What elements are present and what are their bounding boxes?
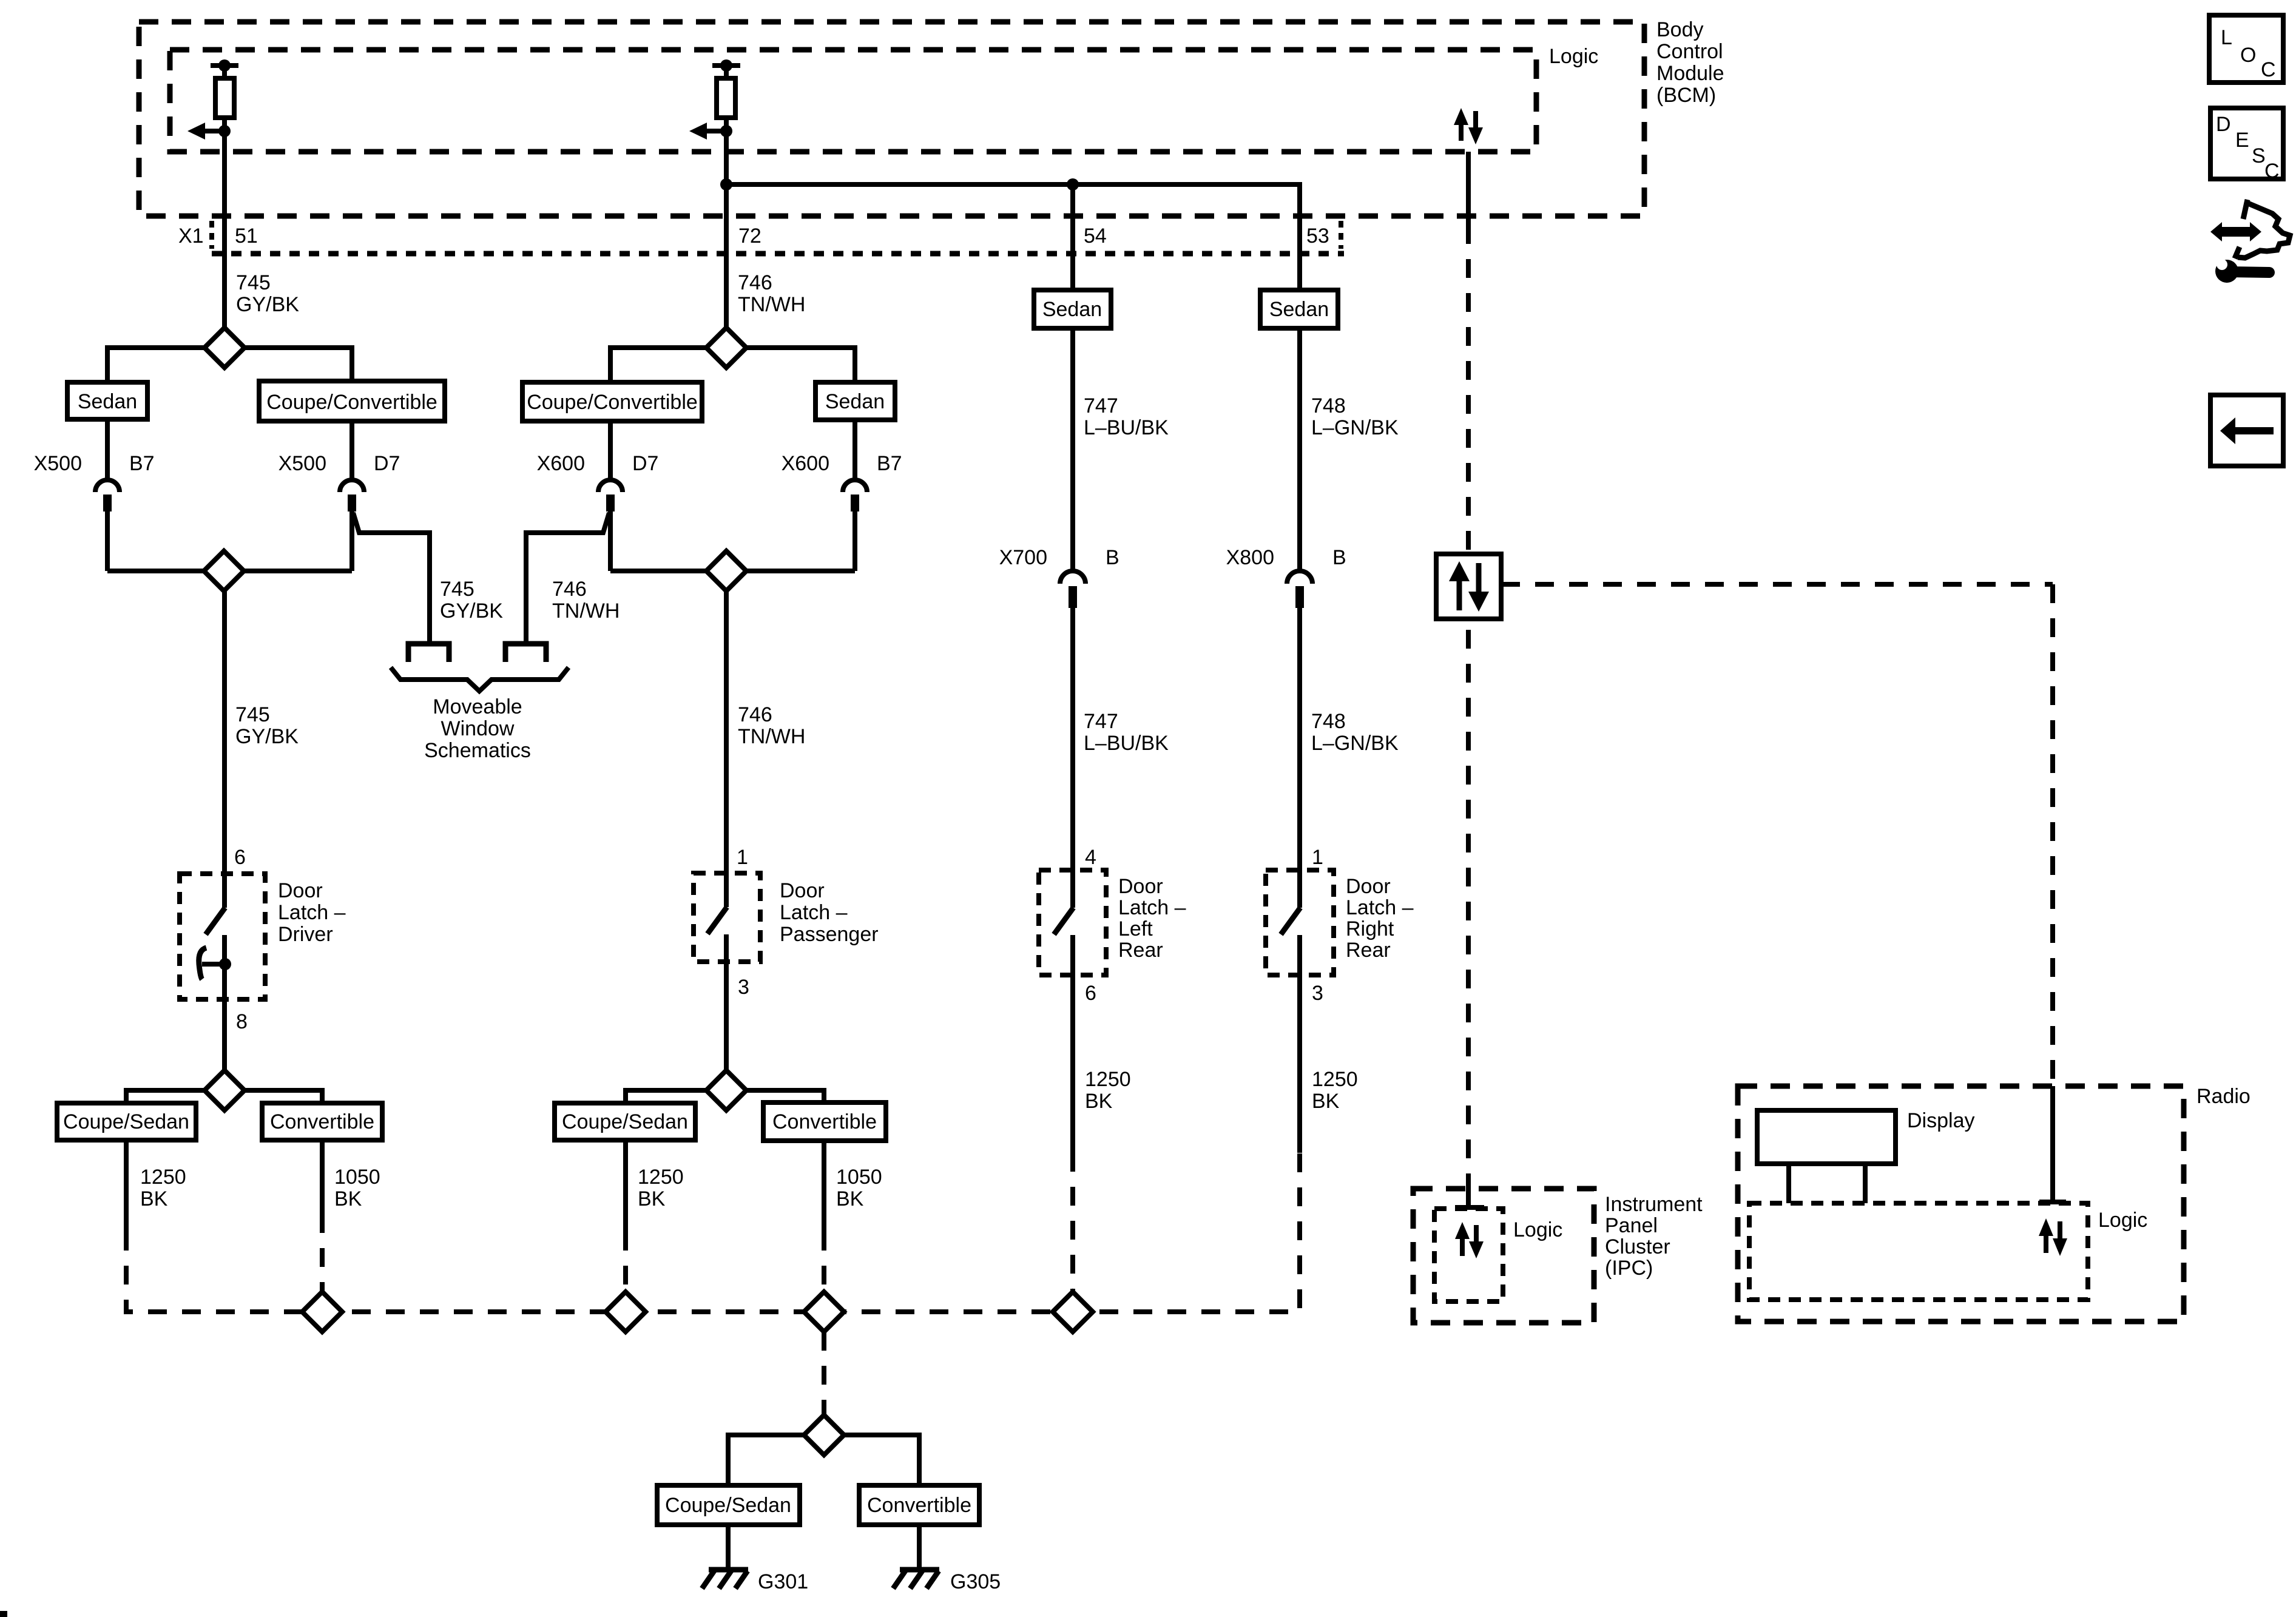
lower horizontal 746 right (746, 569, 855, 573)
svg-text:GY/BK: GY/BK (236, 293, 299, 316)
Radio outer dashed box (1738, 1086, 2184, 1322)
IPC inner Logic dashed box (1434, 1209, 1503, 1301)
svg-text:Door: Door (278, 879, 323, 902)
svg-text:TN/WH: TN/WH (552, 599, 620, 623)
svg-text:Door: Door (1346, 875, 1391, 898)
wire below Coupe/Sedan passenger (solid) (623, 1140, 628, 1232)
svg-text:Logic: Logic (2098, 1209, 2147, 1232)
wire label 1250 BK (748) (1312, 1068, 1358, 1113)
wire lower contact driver latch (222, 935, 227, 1070)
splice diamond S4 (746 lower) (706, 551, 746, 591)
BCM inner Logic dashed box (170, 50, 1536, 152)
svg-text:4: 4 (1085, 846, 1096, 869)
svg-text:BK: BK (638, 1187, 666, 1210)
arrows inside radio logic (2039, 1218, 2067, 1256)
svg-text:Coupe/Convertible: Coupe/Convertible (527, 391, 698, 414)
connector X600 B7 (arc + terminal) (843, 480, 867, 511)
wire serial data out of BCM (solid) (1466, 152, 1471, 225)
wire label 746 TN/WH (window branch) (552, 578, 620, 623)
wire 745 down to door latch driver (222, 591, 227, 908)
wire Sedan2 down to connector X600 B7 (853, 420, 857, 478)
brace for moveable window schematics (391, 667, 569, 691)
switch blade (door latch right rear) (1281, 908, 1300, 934)
svg-text:Latch –: Latch – (278, 901, 346, 924)
wire 748 below X800 to door latch right rear (1297, 608, 1302, 908)
wire label 746 TN/WH (mid) (738, 703, 805, 748)
hook link and junction (driver) (202, 958, 231, 970)
lower horizontal 746 left (610, 569, 706, 573)
svg-text:BK: BK (140, 1187, 168, 1210)
Radio inner Logic dashed box (1749, 1203, 2088, 1300)
node junction at pin 54 takeoff (1067, 178, 1079, 191)
svg-text:748: 748 (1311, 710, 1346, 733)
svg-text:X700: X700 (999, 546, 1047, 569)
wire CoupeConv2 down to connector X600 D7 (608, 421, 613, 478)
resistor R2 (BCM passenger output, pin 72 circuit) (712, 59, 740, 118)
svg-text:6: 6 (234, 846, 246, 869)
option box Coupe/Sedan (passenger ground) (555, 1103, 695, 1140)
svg-text:748: 748 (1311, 394, 1346, 417)
svg-text:BK: BK (1085, 1090, 1113, 1113)
wire label 746 TN/WH (upper) (738, 271, 805, 316)
svg-text:Coupe/Sedan: Coupe/Sedan (665, 1494, 791, 1517)
wire label 745 GY/BK (window branch) (440, 578, 503, 623)
svg-text:1050: 1050 (836, 1166, 882, 1189)
icon moveable window glass with arrow (2210, 200, 2290, 258)
wire lower contact passenger latch (724, 934, 729, 1070)
dashed drop Coupe/Sedan passenger (623, 1232, 628, 1293)
serial wire termination in IPC (1455, 1186, 1484, 1207)
svg-text:745: 745 (440, 578, 474, 601)
svg-text:1: 1 (1312, 846, 1323, 869)
svg-text:72: 72 (738, 224, 761, 248)
svg-text:Driver: Driver (278, 923, 333, 946)
dashed serial wire junction box down to IPC (1466, 630, 1471, 1186)
switch blade (door latch left rear) (1054, 908, 1073, 934)
connector X600 D7 (arc + terminal) (598, 480, 623, 511)
wire lower contact right rear latch (1297, 935, 1302, 1153)
label Instrument Panel Cluster (IPC) (1605, 1193, 1703, 1280)
svg-text:O: O (2240, 44, 2256, 67)
svg-text:Sedan: Sedan (1042, 298, 1102, 321)
svg-text:Latch –: Latch – (1346, 896, 1414, 919)
lower horizontal 745 right (244, 569, 352, 573)
svg-text:3: 3 (1312, 982, 1323, 1005)
dashed ground bus with corners (126, 1153, 1300, 1312)
svg-text:C: C (2261, 58, 2276, 81)
svg-text:Schematics: Schematics (424, 739, 531, 762)
arrow tap on R2 wire (689, 123, 732, 140)
wire to ground G301 (726, 1525, 731, 1568)
splice diamond bus B4 (1053, 1292, 1093, 1332)
wire branch S7 right to Convertible (844, 1435, 919, 1485)
svg-text:Latch –: Latch – (780, 901, 848, 924)
wire pin72 vertical (724, 118, 729, 328)
svg-text:1250: 1250 (140, 1166, 186, 1189)
wire below B7 to lower splice (105, 511, 110, 571)
Instrument Panel Cluster outer dashed box (1413, 1189, 1594, 1323)
wire label 1050 BK (driver convertible) (334, 1166, 380, 1210)
svg-text:GY/BK: GY/BK (440, 599, 503, 623)
dashed drop Convertible passenger (822, 1232, 826, 1293)
label Door Latch - Right Rear (1346, 875, 1414, 962)
ground G305 symbol (893, 1570, 939, 1588)
wire label 748 L-GN/BK (mid) (1311, 710, 1399, 755)
icon box LOC (2209, 15, 2283, 83)
svg-text:Sedan: Sedan (1269, 298, 1329, 321)
svg-text:X800: X800 (1226, 546, 1274, 569)
svg-text:Convertible: Convertible (270, 1110, 374, 1133)
svg-text:3: 3 (738, 976, 749, 999)
wire 746 down to door latch passenger (724, 591, 729, 907)
wire Sedan1 down to connector X500 B7 (105, 419, 110, 478)
wire CoupeConv1 down to connector X500 D7 (349, 421, 354, 478)
svg-text:Window: Window (441, 717, 515, 740)
svg-text:Rear: Rear (1118, 939, 1163, 962)
splice diamond bus B1 (302, 1292, 342, 1332)
svg-text:1250: 1250 (638, 1166, 684, 1189)
option box Sedan (driver, sedan) (67, 382, 147, 419)
svg-text:Convertible: Convertible (772, 1110, 877, 1133)
svg-text:745: 745 (235, 703, 270, 726)
wire label 1250 BK (747) (1085, 1068, 1131, 1113)
label Moveable Window Schematics (424, 695, 531, 762)
icon box DESC (2210, 108, 2283, 183)
svg-text:747: 747 (1084, 710, 1118, 733)
door latch left rear dashed box (1039, 870, 1106, 975)
display leg 1 (1786, 1164, 1791, 1203)
BCM label: Body Control Module (BCM) (1656, 18, 1724, 107)
wire label 1050 BK (passenger convertible) (836, 1166, 882, 1210)
wire branch S2 right to Sedan (746, 348, 855, 382)
Body Control Module (BCM) outer dashed box (139, 22, 1644, 216)
wire pin 54 vertical (1070, 184, 1075, 290)
dashed serial wire down to radio (2050, 584, 2055, 1086)
svg-text:Convertible: Convertible (867, 1494, 971, 1517)
serial wire termination in radio (2039, 1086, 2066, 1202)
svg-text:L–GN/BK: L–GN/BK (1311, 416, 1399, 439)
X1 separator dashes (209, 221, 214, 249)
svg-text:S: S (2252, 144, 2266, 167)
wire label 747 L-BU/BK (upper) (1084, 394, 1169, 439)
wire label 745 GY/BK (mid) (235, 703, 299, 748)
svg-text:TN/WH: TN/WH (738, 293, 805, 316)
option box Coupe/Sedan (driver ground) (57, 1103, 196, 1140)
option box Convertible (ground) (859, 1485, 979, 1525)
svg-text:Coupe/Sedan: Coupe/Sedan (63, 1110, 189, 1133)
svg-text:Cluster: Cluster (1605, 1235, 1670, 1258)
page corner speck (0, 1611, 7, 1617)
option box Coupe/Convertible (driver) (259, 381, 445, 421)
svg-text:Instrument: Instrument (1605, 1193, 1703, 1216)
option box Convertible (driver ground) (262, 1103, 382, 1140)
wire serial data dashed down to junction box (1466, 225, 1471, 554)
icon wrench (2215, 259, 2269, 283)
wire branch S5 left to Coupe/Sedan (126, 1090, 204, 1103)
splice diamond bus B2 (606, 1292, 646, 1332)
svg-text:D7: D7 (632, 452, 658, 475)
svg-text:B7: B7 (129, 452, 155, 475)
splice diamond S7 (ground splice) (804, 1415, 844, 1455)
wire below Convertible driver (solid) (320, 1140, 325, 1214)
svg-text:1050: 1050 (334, 1166, 380, 1189)
resistor R1 (BCM driver output, pin 51 circuit) (211, 59, 238, 118)
node junction on wire 72 feeding pins 54/53 (720, 178, 732, 191)
connector X500 D7 (arc + terminal) (340, 480, 364, 511)
option box Coupe/Convertible (passenger) (522, 382, 702, 421)
wire branch X600 D7 to moveable window schematic (526, 513, 609, 641)
wire branch S1 right to Coupe/Convertible (245, 348, 352, 381)
wire pin51 vertical (745 circuit inside BCM) (222, 118, 227, 328)
serial data junction box (1436, 554, 1501, 619)
svg-text:TN/WH: TN/WH (738, 725, 805, 748)
latch hook (driver) (199, 948, 206, 979)
svg-text:Left: Left (1118, 917, 1153, 940)
svg-text:Control: Control (1656, 40, 1723, 63)
svg-text:6: 6 (1085, 982, 1096, 1005)
svg-text:747: 747 (1084, 394, 1118, 417)
svg-text:Right: Right (1346, 917, 1394, 940)
connector X700 B (arc + terminal) (1060, 571, 1086, 608)
wire below D7 to lower splice (349, 511, 354, 571)
svg-text:X500: X500 (279, 452, 326, 475)
svg-text:D: D (2216, 113, 2231, 136)
wire 747 below X700 to door latch left rear (1070, 608, 1075, 908)
dashed drop 747 left rear (1070, 1153, 1075, 1293)
ground G301 symbol (702, 1570, 748, 1588)
wire internal BCM horizontal to pins 54 and 53 (726, 184, 1300, 290)
option box Sedan (passenger) (815, 382, 895, 420)
svg-text:G305: G305 (950, 1570, 1001, 1593)
svg-text:X500: X500 (34, 452, 82, 475)
svg-text:X600: X600 (782, 452, 829, 475)
option box Convertible (passenger ground) (763, 1102, 886, 1141)
svg-text:Sedan: Sedan (78, 390, 137, 413)
door latch driver dashed box (180, 874, 265, 999)
svg-text:(BCM): (BCM) (1656, 84, 1716, 107)
svg-text:BK: BK (1312, 1090, 1340, 1113)
moveable window terminal 1 (408, 644, 449, 662)
svg-text:C: C (2264, 160, 2280, 183)
wire branch S1 left to Sedan (107, 348, 204, 382)
svg-text:Moveable: Moveable (433, 695, 522, 718)
svg-text:B: B (1332, 546, 1346, 569)
svg-text:Radio: Radio (2196, 1085, 2250, 1108)
wire to ground G305 (917, 1525, 922, 1568)
wire lower contact left rear latch (1070, 935, 1075, 1153)
svg-text:1250: 1250 (1312, 1068, 1358, 1091)
splice diamond S5 (driver latch output) (204, 1070, 245, 1110)
wire branch S7 left to Coupe/Sedan (728, 1435, 804, 1485)
arrows inside IPC logic (1455, 1222, 1484, 1258)
wire branch S5 right to Convertible (245, 1090, 322, 1103)
splice diamond S2 (746) (706, 328, 746, 368)
svg-text:Door: Door (1118, 875, 1163, 898)
svg-text:Display: Display (1907, 1109, 1974, 1132)
lower horizontal 745 (107, 569, 204, 573)
wire 747 from Sedan box down to connector X700 (1070, 328, 1075, 570)
svg-text:L–GN/BK: L–GN/BK (1311, 732, 1399, 755)
svg-text:746: 746 (738, 703, 772, 726)
svg-text:D7: D7 (374, 452, 400, 475)
label Door Latch - Passenger (780, 879, 879, 946)
svg-text:1: 1 (737, 846, 748, 869)
door latch passenger dashed box (694, 873, 760, 962)
svg-text:54: 54 (1084, 224, 1107, 248)
svg-text:(IPC): (IPC) (1605, 1257, 1653, 1280)
svg-text:Coupe/Sedan: Coupe/Sedan (562, 1110, 688, 1133)
svg-text:L–BU/BK: L–BU/BK (1084, 416, 1169, 439)
dashed serial wire junction box to radio (1501, 582, 2053, 587)
wire label 1250 BK (driver coupe/sedan) (140, 1166, 186, 1210)
svg-text:E: E (2235, 129, 2249, 152)
dashed drop Convertible driver (320, 1214, 325, 1293)
svg-text:1250: 1250 (1085, 1068, 1131, 1091)
wire label 747 L-BU/BK (mid) (1084, 710, 1169, 755)
svg-text:Coupe/Convertible: Coupe/Convertible (266, 391, 437, 414)
connector row X1: dotted line (212, 251, 1344, 257)
wire branch D7 to moveable window schematic (353, 513, 430, 641)
svg-text:Rear: Rear (1346, 939, 1391, 962)
svg-text:BK: BK (334, 1187, 362, 1210)
moveable window terminal 2 (505, 644, 546, 662)
svg-text:Door: Door (780, 879, 825, 902)
53 separator dashes (1339, 221, 1343, 249)
arrow tap on R1 wire (187, 123, 231, 140)
wire label 1250 BK (passenger coupe/sedan) (638, 1166, 684, 1210)
connector X500 B7 (arc + terminal) (95, 480, 120, 511)
svg-text:GY/BK: GY/BK (235, 725, 299, 748)
svg-text:Panel: Panel (1605, 1214, 1658, 1237)
wire branch S2 left to Coupe/Convertible (610, 348, 706, 382)
wire below Coupe/Sedan driver (solid) (124, 1140, 129, 1232)
svg-text:B: B (1106, 546, 1119, 569)
svg-text:BK: BK (836, 1187, 864, 1210)
wire branch S6 right to Convertible (746, 1090, 824, 1103)
wire below X600 D7 (608, 511, 613, 571)
svg-text:L–BU/BK: L–BU/BK (1084, 732, 1169, 755)
svg-text:Sedan: Sedan (825, 390, 885, 413)
label Door Latch - Left Rear (1118, 875, 1186, 962)
svg-text:51: 51 (235, 224, 258, 248)
svg-text:Logic: Logic (1513, 1218, 1562, 1241)
svg-text:Module: Module (1656, 62, 1724, 85)
connector X800 B (arc + terminal) (1287, 571, 1312, 608)
icon box back arrow (2210, 395, 2283, 466)
door latch right rear dashed box (1266, 870, 1334, 975)
svg-text:746: 746 (552, 578, 587, 601)
svg-text:Latch –: Latch – (1118, 896, 1186, 919)
option box Coupe/Sedan (ground) (657, 1485, 800, 1525)
svg-text:8: 8 (236, 1010, 248, 1033)
wire below X600 B7 (853, 511, 857, 571)
wire 745 below connector to splice diamond (222, 254, 227, 328)
label Door Latch - Driver (278, 879, 346, 946)
svg-text:B7: B7 (877, 452, 902, 475)
wire below Convertible passenger (solid) (822, 1141, 826, 1232)
svg-text:L: L (2221, 26, 2232, 49)
switch blade (door latch driver) (206, 908, 225, 934)
splice diamond S6 (passenger latch output) (706, 1070, 746, 1110)
svg-text:53: 53 (1306, 224, 1329, 248)
svg-text:Body: Body (1656, 18, 1704, 41)
display leg 2 (1863, 1164, 1868, 1203)
splice diamond bus B3 (804, 1292, 844, 1332)
svg-text:X1: X1 (178, 224, 204, 248)
svg-text:746: 746 (738, 271, 772, 294)
arrows inside junction box (1449, 561, 1489, 612)
splice diamond S3 (745 lower) (204, 551, 244, 591)
svg-text:Logic: Logic (1549, 45, 1598, 68)
svg-text:Passenger: Passenger (780, 923, 879, 946)
wire label 748 L-GN/BK (upper) (1311, 394, 1399, 439)
wire branch S6 left to Coupe/Sedan (626, 1090, 706, 1103)
switch blade (door latch passenger) (707, 907, 727, 934)
serial data arrows inside BCM logic (1454, 108, 1483, 144)
svg-text:745: 745 (236, 271, 271, 294)
dashed drop to ground splice (822, 1332, 826, 1415)
radio Display box (1757, 1109, 1974, 1164)
option box Sedan (left rear circuit) (1034, 290, 1111, 328)
wire label 745 GY/BK (upper) (236, 271, 299, 316)
splice diamond S1 (745) (204, 328, 245, 368)
svg-text:G301: G301 (758, 1570, 808, 1593)
option box Sedan (right rear circuit) (1260, 290, 1338, 328)
svg-text:X600: X600 (537, 452, 585, 475)
wire 748 from Sedan box down to connector X800 (1297, 328, 1302, 570)
